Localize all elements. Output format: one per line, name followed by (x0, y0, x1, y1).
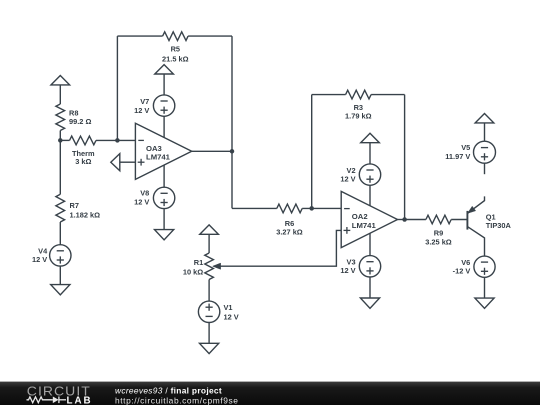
svg-text:12 V: 12 V (134, 197, 149, 206)
svg-text:V3: V3 (347, 257, 356, 266)
svg-text:R7: R7 (70, 201, 79, 210)
svg-text:11.97 V: 11.97 V (445, 152, 470, 161)
svg-text:12 V: 12 V (340, 174, 355, 183)
svg-text:LAB: LAB (67, 395, 93, 405)
svg-text:12 V: 12 V (32, 255, 47, 264)
svg-text:TIP30A: TIP30A (486, 221, 512, 230)
svg-text:12 V: 12 V (134, 106, 149, 115)
svg-text:R1: R1 (194, 258, 203, 267)
svg-text:http://circuitlab.com/cpmf9se: http://circuitlab.com/cpmf9se (115, 395, 239, 405)
svg-text:V5: V5 (461, 143, 470, 152)
svg-text:V4: V4 (38, 246, 48, 255)
svg-text:OA3: OA3 (146, 144, 162, 153)
svg-text:wcreeves93 / final project: wcreeves93 / final project (115, 385, 222, 395)
svg-text:1.182 kΩ: 1.182 kΩ (70, 210, 101, 219)
svg-text:V8: V8 (140, 189, 149, 198)
svg-text:R9: R9 (434, 228, 443, 237)
svg-text:3 kΩ: 3 kΩ (75, 157, 91, 166)
svg-text:12 V: 12 V (340, 266, 355, 275)
svg-text:OA2: OA2 (352, 212, 368, 221)
svg-text:V1: V1 (224, 303, 233, 312)
svg-text:LM741: LM741 (146, 153, 171, 162)
svg-text:-12 V: -12 V (453, 267, 471, 276)
svg-text:3.27 kΩ: 3.27 kΩ (276, 228, 303, 237)
svg-text:21.5 kΩ: 21.5 kΩ (162, 55, 189, 64)
svg-text:12 V: 12 V (224, 313, 239, 322)
svg-text:1.79 kΩ: 1.79 kΩ (345, 111, 372, 120)
svg-text:R5: R5 (171, 45, 180, 54)
svg-text:V6: V6 (461, 258, 470, 267)
svg-text:3.25 kΩ: 3.25 kΩ (425, 238, 452, 247)
svg-text:LM741: LM741 (352, 221, 377, 230)
svg-text:99.2 Ω: 99.2 Ω (69, 117, 91, 126)
svg-text:10 kΩ: 10 kΩ (183, 267, 203, 276)
